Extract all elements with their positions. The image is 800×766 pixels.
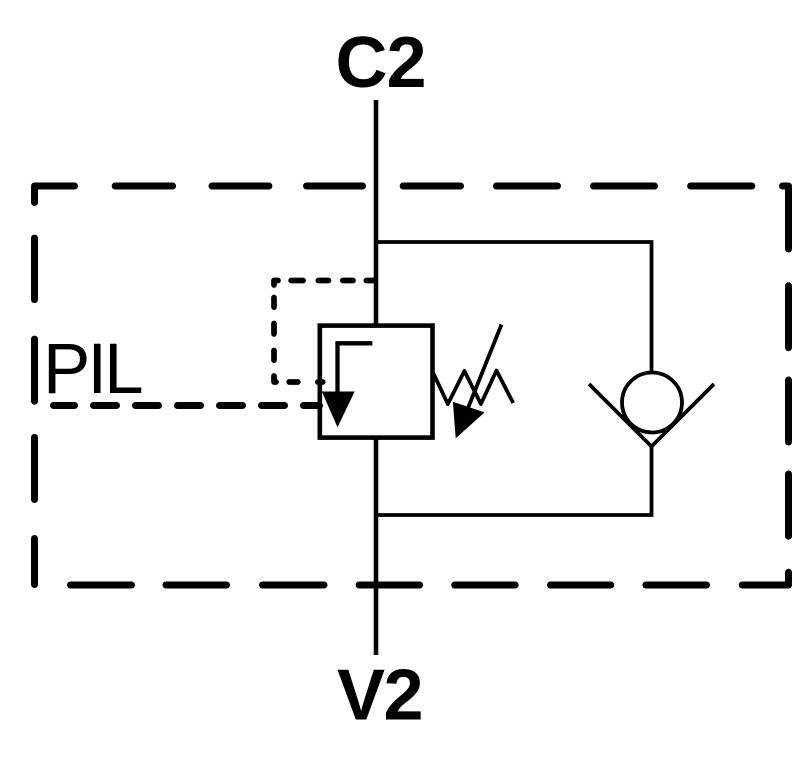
- svg-text:PIL: PIL: [43, 330, 142, 409]
- enclosure dashed border: top edge dashes: [115, 183, 752, 190]
- wire: bottom branch from check valve: [374, 447, 652, 516]
- port label C2: [335, 23, 425, 103]
- pilot line from PIL port (dashed): [54, 402, 320, 409]
- wire: C2 port line (top vertical): [374, 100, 379, 326]
- relief valve internal flow arrowhead: [322, 392, 355, 428]
- pilot sense line (fine dashed) bottom-left corner: [274, 376, 276, 382]
- enclosure dashed border: bottom-right corner: [742, 572, 788, 585]
- enclosure dashed border: left edge dashes: [31, 238, 38, 584]
- relief valve body (square): [320, 326, 433, 438]
- spring (zigzag): [433, 371, 513, 405]
- node label PIL: [43, 330, 142, 409]
- adjustment arrow shaft: [468, 325, 502, 409]
- check valve ball (circle): [622, 373, 682, 433]
- enclosure dashed border: top-right corner: [783, 186, 789, 249]
- pilot sense line (fine dashed) left vertical dashes: [271, 298, 277, 361]
- svg-text:C2: C2: [335, 23, 425, 103]
- adjustment arrowhead: [453, 402, 485, 438]
- enclosure dashed border: top-left corner: [35, 186, 75, 203]
- pilot sense line (fine dashed) bottom horizontal dashes: [289, 379, 323, 385]
- relief valve internal flow path (flag line): [338, 343, 373, 392]
- pilot sense line (fine dashed) top horizontal dashes: [291, 278, 375, 284]
- check valve seat (V): [589, 384, 714, 447]
- wire: V2 port line (bottom vertical): [374, 437, 379, 655]
- enclosure dashed border: right edge dashes: [785, 286, 792, 536]
- enclosure dashed border: bottom edge dashes: [71, 582, 707, 589]
- svg-text:V2: V2: [337, 656, 422, 736]
- port label V2: [337, 656, 422, 736]
- wire: top branch to check valve: [374, 242, 652, 374]
- pilot sense line (fine dashed) top-left corner: [274, 281, 278, 286]
